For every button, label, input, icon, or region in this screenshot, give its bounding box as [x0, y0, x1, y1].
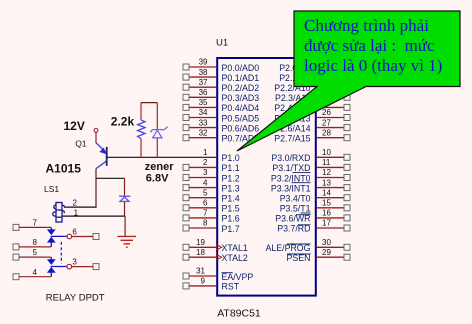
- svg-text:4: 4: [203, 178, 208, 187]
- svg-text:7: 7: [203, 209, 208, 218]
- svg-text:39: 39: [199, 58, 208, 67]
- svg-text:P0.4/AD4: P0.4/AD4: [222, 103, 260, 113]
- svg-text:1: 1: [74, 209, 79, 218]
- svg-text:P3.0/RXD: P3.0/RXD: [271, 153, 310, 163]
- svg-text:U1: U1: [216, 38, 228, 49]
- svg-text:10: 10: [322, 148, 331, 157]
- svg-text:30: 30: [322, 238, 331, 247]
- svg-text:P0.0/AD0: P0.0/AD0: [222, 63, 260, 73]
- svg-text:12: 12: [322, 168, 331, 177]
- svg-text:RELAY DPDT: RELAY DPDT: [46, 292, 105, 303]
- svg-text:AT89C51: AT89C51: [217, 308, 261, 320]
- svg-text:8: 8: [33, 238, 38, 247]
- svg-text:P0.3/AD3: P0.3/AD3: [222, 93, 260, 103]
- svg-text:37: 37: [199, 78, 208, 87]
- svg-text:27: 27: [322, 118, 331, 127]
- svg-text:P3.1/TXD: P3.1/TXD: [272, 163, 310, 173]
- svg-text:P1.6: P1.6: [222, 214, 240, 224]
- svg-text:P1.4: P1.4: [222, 194, 240, 204]
- svg-text:ALE/PROG: ALE/PROG: [266, 243, 311, 253]
- svg-text:35: 35: [199, 98, 208, 107]
- svg-text:P3.3/INT1: P3.3/INT1: [271, 183, 311, 193]
- svg-text:1: 1: [203, 148, 208, 157]
- svg-text:29: 29: [322, 248, 331, 257]
- svg-text:8: 8: [203, 219, 208, 228]
- svg-text:XTAL1: XTAL1: [222, 243, 248, 253]
- svg-text:33: 33: [199, 118, 208, 127]
- svg-text:P3.2/INT0: P3.2/INT0: [271, 173, 311, 183]
- svg-text:EA/VPP: EA/VPP: [222, 272, 254, 282]
- svg-text:Q1: Q1: [75, 138, 87, 148]
- svg-text:2.2k: 2.2k: [111, 114, 135, 128]
- svg-text:26: 26: [322, 108, 331, 117]
- svg-text:7: 7: [33, 219, 38, 228]
- svg-text:P1.5: P1.5: [222, 204, 240, 214]
- svg-text:12V: 12V: [64, 119, 85, 133]
- svg-text:P0.6/AD6: P0.6/AD6: [222, 123, 260, 133]
- svg-text:38: 38: [199, 68, 208, 77]
- svg-text:14: 14: [322, 188, 331, 197]
- svg-text:17: 17: [322, 219, 331, 228]
- svg-text:P3.6/WR: P3.6/WR: [275, 214, 310, 224]
- svg-text:9: 9: [201, 277, 206, 286]
- svg-text:3: 3: [203, 168, 208, 177]
- svg-text:2: 2: [73, 198, 78, 207]
- svg-text:PSEN: PSEN: [287, 253, 311, 263]
- svg-text:2: 2: [203, 158, 208, 167]
- svg-text:18: 18: [196, 248, 205, 257]
- svg-text:P3.5/T1: P3.5/T1: [280, 204, 311, 214]
- svg-text:16: 16: [322, 209, 331, 218]
- svg-text:XTAL2: XTAL2: [222, 253, 248, 263]
- svg-text:19: 19: [196, 238, 205, 247]
- svg-text:P1.7: P1.7: [222, 224, 240, 234]
- svg-text:31: 31: [196, 267, 205, 276]
- svg-text:P0.5/AD5: P0.5/AD5: [222, 113, 260, 123]
- svg-text:A1015: A1015: [46, 162, 82, 176]
- svg-text:P0.1/AD1: P0.1/AD1: [222, 73, 260, 83]
- svg-text:5: 5: [203, 188, 208, 197]
- svg-text:5: 5: [33, 248, 38, 257]
- svg-text:P2.7/A15: P2.7/A15: [274, 134, 310, 144]
- svg-text:34: 34: [199, 108, 208, 117]
- svg-text:15: 15: [322, 199, 331, 208]
- svg-text:36: 36: [199, 88, 208, 97]
- svg-text:zener: zener: [145, 161, 174, 173]
- svg-text:P0.2/AD2: P0.2/AD2: [222, 83, 260, 93]
- svg-text:RST: RST: [222, 282, 240, 292]
- svg-text:P1.0: P1.0: [222, 153, 240, 163]
- svg-text:11: 11: [322, 158, 331, 167]
- svg-text:P1.3: P1.3: [222, 183, 240, 193]
- svg-text:4: 4: [33, 268, 38, 277]
- svg-text:P1.2: P1.2: [222, 173, 240, 183]
- svg-text:13: 13: [322, 178, 331, 187]
- svg-text:3: 3: [72, 258, 77, 267]
- svg-text:6: 6: [72, 228, 77, 237]
- svg-text:6.8V: 6.8V: [146, 173, 169, 185]
- svg-text:P3.4/T0: P3.4/T0: [280, 194, 311, 204]
- svg-text:6: 6: [203, 199, 208, 208]
- svg-text:32: 32: [199, 128, 208, 137]
- svg-text:LS1: LS1: [44, 184, 59, 194]
- svg-text:28: 28: [322, 128, 331, 137]
- svg-text:P1.1: P1.1: [222, 163, 240, 173]
